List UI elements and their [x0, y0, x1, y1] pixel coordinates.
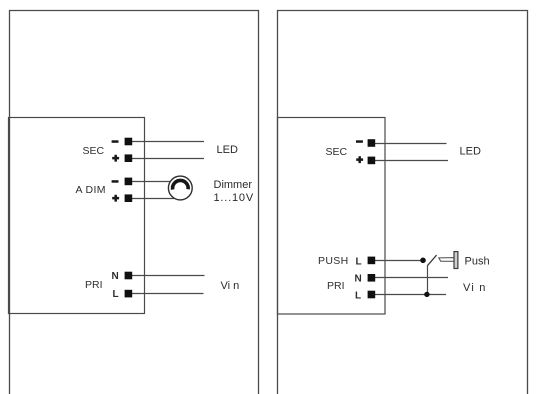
- terminal A DIM + (left): [125, 194, 133, 202]
- svg-text:Vi n: Vi n: [463, 282, 487, 294]
- terminal PRI N (right): [368, 274, 376, 282]
- terminal SEC+ (right): [368, 157, 376, 165]
- svg-text:SEC: SEC: [326, 146, 348, 158]
- minus sign SEC (right): [356, 140, 363, 143]
- svg-text:L: L: [113, 289, 119, 300]
- svg-text:PUSH: PUSH: [318, 255, 349, 267]
- svg-text:Push: Push: [465, 255, 490, 267]
- wire SEC+ to LED (left): [130, 158, 204, 160]
- right driver box: [278, 118, 386, 315]
- svg-text:N: N: [112, 271, 119, 282]
- svg-text:LED: LED: [460, 146, 481, 158]
- wire PRI L to Vin (right): [373, 294, 446, 296]
- push button bar: [454, 252, 458, 269]
- svg-text:Dimmer: Dimmer: [214, 179, 253, 191]
- svg-text:N: N: [355, 274, 362, 285]
- plus sign A DIM (left): [112, 195, 119, 202]
- svg-text:PRI: PRI: [327, 280, 345, 292]
- terminal PRI L (left): [125, 290, 133, 298]
- terminal SEC- (right): [368, 139, 376, 147]
- left panel outer frame: [10, 11, 259, 394]
- wire SEC- to LED (right): [373, 143, 447, 145]
- svg-text:A DIM: A DIM: [76, 184, 106, 196]
- switch contact dot: [420, 258, 426, 264]
- wire PRI L to Vin (left): [130, 293, 204, 295]
- svg-text:LED: LED: [217, 144, 238, 156]
- right panel outer frame: [278, 11, 528, 394]
- terminal SEC- (left): [125, 138, 133, 146]
- terminal A DIM - (left): [125, 178, 133, 186]
- svg-text:1...10V: 1...10V: [214, 192, 254, 204]
- switch lever: [428, 255, 437, 265]
- svg-text:L: L: [355, 291, 361, 302]
- dimmer potentiometer circle: [168, 176, 192, 200]
- dimmer knob arc: [173, 180, 189, 189]
- wire A DIM + to dimmer: [130, 198, 174, 200]
- left driver box: [9, 118, 145, 314]
- terminal PRI L (right): [368, 291, 376, 299]
- wire SEC- to LED (left): [130, 141, 204, 143]
- svg-text:PRI: PRI: [85, 279, 103, 291]
- minus sign SEC (left): [112, 140, 119, 143]
- wire PUSH L to switch contact: [373, 260, 421, 262]
- svg-text:SEC: SEC: [83, 145, 105, 157]
- terminal SEC+ (left): [125, 154, 133, 162]
- terminal PUSH L (right): [368, 257, 376, 265]
- wire A DIM - to dimmer: [130, 181, 171, 183]
- wire PRI N to Vin (right): [373, 277, 448, 279]
- wire SEC+ to LED (right): [373, 160, 448, 162]
- wire vertical from switch to PRI L: [427, 265, 429, 295]
- minus sign A DIM (left): [112, 180, 119, 183]
- terminal PRI N (left): [125, 272, 133, 280]
- plus sign SEC (left): [112, 155, 119, 162]
- wire PRI N to Vin (left): [130, 275, 205, 277]
- plus sign SEC (right): [356, 156, 363, 163]
- junction dot on PRI L wire: [424, 292, 429, 297]
- svg-text:Vi n: Vi n: [221, 280, 240, 292]
- svg-text:L: L: [356, 256, 362, 267]
- push rod: [439, 258, 454, 262]
